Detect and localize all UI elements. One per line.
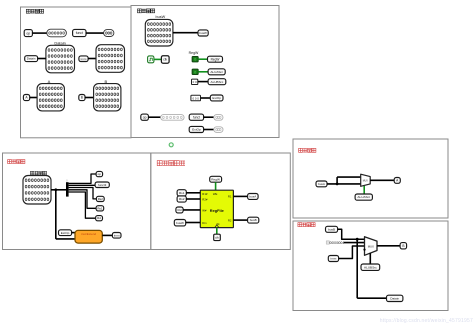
svg-text:ExtOp: ExtOp — [192, 128, 201, 132]
wire mux select to ALUBSrc — [369, 253, 371, 264]
svg-text:busA: busA — [249, 195, 256, 199]
svg-text:0 0 0: 0 0 0 — [192, 96, 199, 100]
svg-text:WE: WE — [213, 192, 218, 196]
pin imm (B6) — [328, 256, 338, 262]
wire Datain — [38, 58, 46, 60]
pin op (B1) — [24, 30, 32, 37]
wire ExtOp — [201, 97, 211, 99]
pin Rs2 (B4) — [177, 196, 186, 202]
svg-text:R2#: R2# — [202, 198, 208, 202]
svg-text:ALUASrc: ALUASrc — [210, 70, 223, 74]
wire instr branch to extender — [56, 238, 75, 240]
title label B1 (black CJK) — [26, 9, 30, 13]
wire funct faded probe — [204, 116, 214, 118]
junction busB/Datain — [356, 238, 359, 241]
svg-text:busB: busB — [328, 227, 335, 231]
pin Rd (B4) — [176, 207, 183, 213]
pin funct3 (B3) — [95, 182, 109, 188]
wire Datain horizontal — [357, 297, 386, 299]
title label B3 (red CJK) — [8, 160, 12, 164]
region box B4 register-access frame — [151, 153, 290, 250]
toggle ExtOp value 000 — [191, 95, 201, 101]
wire Rd — [183, 209, 200, 211]
splitter leg Rd — [69, 192, 96, 218]
region box B5 output-reg-A frame — [293, 139, 448, 218]
wire busW (B4) — [186, 222, 201, 224]
wire imm to mux input2 — [339, 246, 365, 259]
svg-text:busB: busB — [250, 218, 257, 222]
wire constant to mux input1 — [344, 242, 365, 244]
svg-text:funct3: funct3 — [98, 183, 107, 187]
svg-text:Rd: Rd — [97, 216, 101, 220]
wire clk (green) — [154, 58, 162, 60]
pin B (B1) — [79, 95, 85, 101]
svg-text:MUX: MUX — [368, 244, 374, 248]
probe pill funct 3 bits — [104, 30, 114, 37]
pin RegW (B4) — [210, 176, 222, 182]
region box B1 output-signals frame — [21, 7, 132, 138]
toggle ALUASrc value 0 (green) — [192, 69, 198, 75]
wire imm to probe matrix — [88, 58, 96, 60]
svg-text:Din: Din — [202, 221, 207, 225]
svg-text:clk: clk — [163, 58, 167, 62]
wire busA branch to mux input0 — [337, 176, 361, 178]
faded probe pill ExtOp — [214, 127, 223, 133]
faded probe pill funct — [214, 115, 223, 121]
pin Rs1 (B3) — [96, 206, 104, 211]
splitter leg op — [69, 174, 97, 183]
wire mux select (green) — [363, 186, 365, 194]
svg-text:ExtOp: ExtOp — [61, 231, 70, 235]
svg-text:RegW: RegW — [211, 57, 220, 61]
wire op to probe — [32, 32, 46, 34]
pin op (B2 bottom) — [141, 114, 149, 120]
svg-text:R1#: R1# — [202, 192, 208, 196]
pin imm (B1) — [79, 56, 88, 62]
immediate extender subcircuit (orange) — [75, 230, 102, 243]
svg-text:ALUBSrc: ALUBSrc — [211, 80, 224, 84]
svg-text:imm: imm — [330, 257, 336, 261]
input matrix busW 32-bit — [145, 19, 173, 46]
wire mux to A — [370, 179, 394, 181]
svg-text:MUX: MUX — [363, 181, 369, 183]
pin A (B5) — [394, 178, 400, 184]
wire instr branch down — [55, 190, 57, 239]
svg-text:instrExtend: instrExtend — [81, 232, 96, 236]
wire ExtOp to extender — [72, 232, 75, 234]
junction busA — [336, 183, 339, 186]
pin busA (B4) — [248, 194, 259, 200]
wire busB to mux input0 — [338, 229, 365, 239]
pin clk (B4) — [214, 234, 221, 240]
pin Rs1 (B4) — [177, 190, 186, 196]
region box B3 instruction-decode frame — [3, 153, 151, 250]
splitter leg Rs2 — [69, 188, 97, 199]
wire RegW (green) — [198, 58, 207, 60]
svg-text:funct: funct — [76, 31, 83, 35]
svg-text:imm: imm — [114, 233, 120, 237]
probe matrix imm 32-bit — [96, 45, 125, 73]
wire mux to B — [377, 245, 400, 247]
svg-text:R1: R1 — [228, 195, 232, 199]
pin funct (B1) — [73, 29, 86, 36]
pin ExtOp (B2) — [210, 95, 223, 101]
title label B6 (red CJK) — [298, 223, 302, 227]
svg-text:Rs2: Rs2 — [98, 197, 104, 201]
svg-text:op: op — [143, 115, 147, 119]
svg-text:0: 0 — [194, 70, 196, 74]
wire funct to probe — [86, 32, 104, 34]
svg-text:Rs1: Rs1 — [97, 206, 103, 210]
svg-text:op: op — [26, 31, 30, 35]
pin A (B1) — [23, 95, 29, 101]
svg-text:busW: busW — [156, 15, 166, 19]
svg-text:RegW: RegW — [189, 51, 199, 55]
svg-text:busW: busW — [176, 221, 184, 225]
clock source — [148, 56, 154, 63]
wire Rs1 — [186, 192, 200, 194]
probe pill op 6 bits — [47, 29, 67, 37]
svg-text:Rs2: Rs2 — [179, 197, 185, 201]
pin imm (B3) — [112, 233, 121, 239]
svg-text:Datain: Datain — [54, 40, 66, 45]
pin RegW (B2) — [208, 56, 223, 62]
wire op faded probe — [148, 116, 160, 118]
wire A — [30, 97, 37, 99]
mux input stub dot — [363, 249, 365, 251]
wire ALUBSrc — [198, 81, 208, 83]
pin busW (B2) — [198, 30, 208, 36]
pin ExtOp (B2 bottom) — [189, 126, 203, 132]
svg-text:RegW: RegW — [211, 177, 220, 181]
splitter leg Rs1 — [69, 190, 97, 209]
splitter leg funct3 — [69, 184, 96, 186]
svg-text:httрs://blog.csdn.net/weixin_4: httрs://blog.csdn.net/weixin_45791957 — [380, 318, 473, 324]
LED indicator (green) — [169, 143, 173, 147]
pin ALUBSrc (B6) — [361, 264, 380, 270]
junction instr — [54, 188, 57, 191]
toggle ALUBSrc value 00 — [192, 79, 198, 84]
svg-text:op: op — [98, 172, 102, 176]
svg-text:00000004: 00000004 — [330, 241, 345, 245]
pin ALUBSrc (B2) — [208, 79, 226, 85]
constant 00000004 — [326, 241, 329, 244]
pin busW (B4) — [174, 220, 185, 226]
pin ExtOp (B3) — [59, 230, 72, 236]
wire busA — [233, 195, 247, 197]
pin funct (B2 bottom) — [189, 114, 203, 120]
title label B2 (black CJK) — [138, 9, 142, 13]
wire Rs2 — [186, 198, 200, 200]
wire clk to RegFile (green) — [216, 228, 218, 235]
title label B5 (red CJK) — [299, 148, 303, 152]
title label B4 (red CJK) — [157, 161, 162, 166]
svg-text:clk: clk — [215, 236, 219, 240]
svg-text:ALUBSrc: ALUBSrc — [364, 265, 377, 269]
label input-instruction (black CJK) — [30, 171, 34, 175]
pin ALUASrc (B5) — [355, 194, 372, 200]
svg-text:R2: R2 — [228, 218, 232, 222]
svg-text:ALUASrc: ALUASrc — [357, 195, 370, 199]
probe matrix A 32-bit — [37, 84, 64, 111]
pin Rs2 (B3) — [96, 196, 104, 201]
svg-text:ExtOp: ExtOp — [212, 96, 221, 100]
wire extender to imm — [102, 234, 112, 236]
pin ALUASrc (B2) — [208, 69, 225, 75]
faded probe pill op — [161, 115, 185, 121]
mux B (4-to-1) — [365, 237, 378, 256]
wire RegW to RegFile (green) — [215, 182, 217, 190]
pin busA (B5) — [316, 181, 327, 187]
svg-text:B: B — [402, 244, 404, 248]
pin busB (B4) — [248, 217, 259, 223]
pin busB (B6) — [326, 226, 338, 232]
input matrix instr 32-bit — [23, 176, 51, 205]
region box B2 input-signals frame — [131, 6, 279, 138]
wire busB — [233, 219, 247, 221]
svg-text:W#: W# — [202, 208, 207, 212]
wire ExtOp faded probe — [204, 129, 214, 131]
wire ALUASrc (green) — [198, 71, 208, 73]
wire busA to mux input1 — [327, 183, 361, 185]
splitter bar — [66, 182, 69, 196]
svg-text:Rd: Rd — [178, 208, 182, 212]
probe matrix B 32-bit — [94, 84, 121, 111]
wire busW — [173, 32, 198, 34]
mux A (2-to-1) — [361, 174, 371, 186]
svg-text:RegFile: RegFile — [210, 208, 225, 213]
pin B (B6) — [400, 243, 407, 249]
probe matrix Datain 32-bit — [46, 45, 75, 73]
svg-text:imm: imm — [81, 57, 87, 61]
svg-text:Datain: Datain — [27, 57, 36, 61]
svg-text:0: 0 — [194, 58, 196, 62]
RegFile subcircuit (yellow) — [200, 190, 233, 227]
svg-text:funct: funct — [193, 115, 200, 119]
pin op (B3) — [96, 171, 103, 176]
svg-text:busA: busA — [318, 182, 325, 186]
pin Datain (B6) — [387, 295, 403, 301]
pin clk (B2) — [161, 56, 169, 64]
region box B6 output-reg-B frame — [293, 221, 448, 311]
pin Rd (B3) — [96, 216, 103, 221]
wire Datain riser — [356, 239, 358, 298]
svg-text:busW: busW — [199, 31, 207, 35]
pin Datain (B1) — [25, 56, 38, 62]
svg-text:Datain: Datain — [390, 297, 399, 301]
wire B — [85, 97, 94, 99]
toggle RegW value 0 (green) — [192, 56, 198, 62]
wire instr to splitter — [51, 189, 66, 191]
svg-text:Rs1: Rs1 — [179, 191, 185, 195]
wire busA branch up — [336, 177, 338, 184]
svg-text:0 0: 0 0 — [193, 80, 197, 84]
